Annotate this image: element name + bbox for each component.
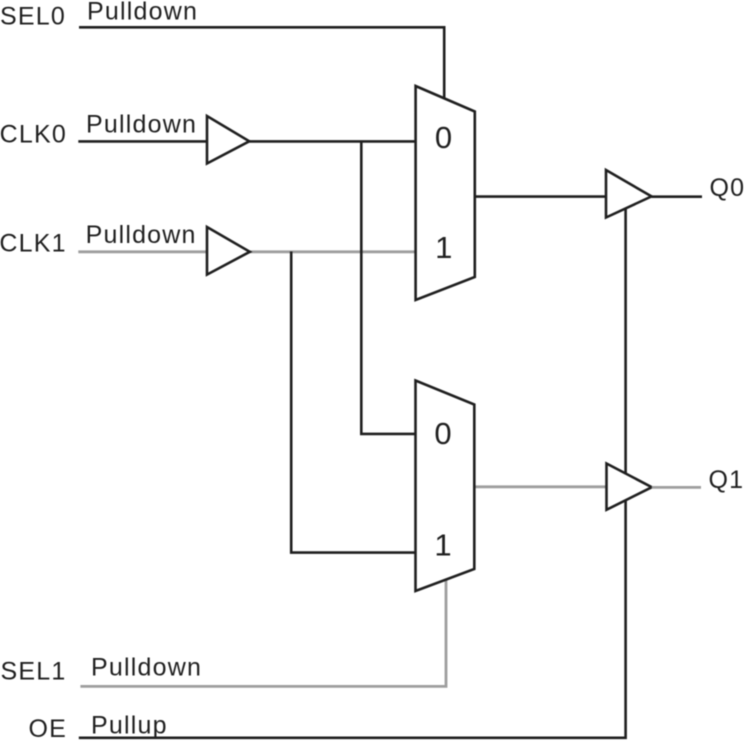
svg-text:Pulldown: Pulldown <box>87 0 198 26</box>
svg-text:SEL0: SEL0 <box>0 3 66 31</box>
svg-text:CLK0: CLK0 <box>0 121 67 149</box>
svg-text:Pullup: Pullup <box>91 711 168 739</box>
svg-text:Pulldown: Pulldown <box>91 653 202 681</box>
svg-text:1: 1 <box>435 230 452 265</box>
svg-text:1: 1 <box>434 528 451 563</box>
wire CLK0 input to buffer <box>78 140 207 143</box>
wire CLK1 buffer output to MUX1 input 1 (gray) <box>250 250 417 253</box>
wire CLK1 branch down and right to MUX2 input 1 <box>291 252 417 553</box>
wire Q0 output <box>652 195 703 198</box>
output buffer U3 (Q0) <box>606 170 652 218</box>
svg-text:0: 0 <box>434 416 451 451</box>
wire OE net: horizontal then up to output buffer enables <box>79 208 626 738</box>
multiplexer MUX1 <box>416 86 475 300</box>
svg-text:Q1: Q1 <box>709 466 745 494</box>
wire CLK0 branch down and right to MUX2 input 0 <box>361 141 417 434</box>
buffer U2 (CLK1 input buffer) <box>207 227 250 275</box>
svg-text:Pulldown: Pulldown <box>86 111 197 139</box>
multiplexer MUX2 <box>416 381 475 592</box>
svg-text:0: 0 <box>435 120 452 155</box>
svg-text:SEL1: SEL1 <box>1 657 67 685</box>
wire Q1 output (gray) <box>652 486 701 489</box>
wire SEL0 net: horizontal then down to MUX1 select <box>79 27 444 100</box>
wire MUX1 output to buffer Q0 <box>475 195 607 198</box>
svg-text:Q0: Q0 <box>710 174 746 202</box>
wire MUX2 output to buffer Q1 (gray) <box>474 485 607 488</box>
svg-text:OE: OE <box>28 715 67 741</box>
svg-text:Pulldown: Pulldown <box>86 221 197 249</box>
wire CLK1 input to buffer (gray) <box>78 250 207 253</box>
buffer U1 (CLK0 input buffer) <box>207 116 249 164</box>
wire SEL1 net: horizontal then up to MUX2 select (gray) <box>80 578 446 686</box>
output buffer U4 (Q1) <box>607 464 652 510</box>
wire CLK0 buffer output to MUX1 input 0 <box>249 140 416 143</box>
svg-text:CLK1: CLK1 <box>0 230 67 258</box>
